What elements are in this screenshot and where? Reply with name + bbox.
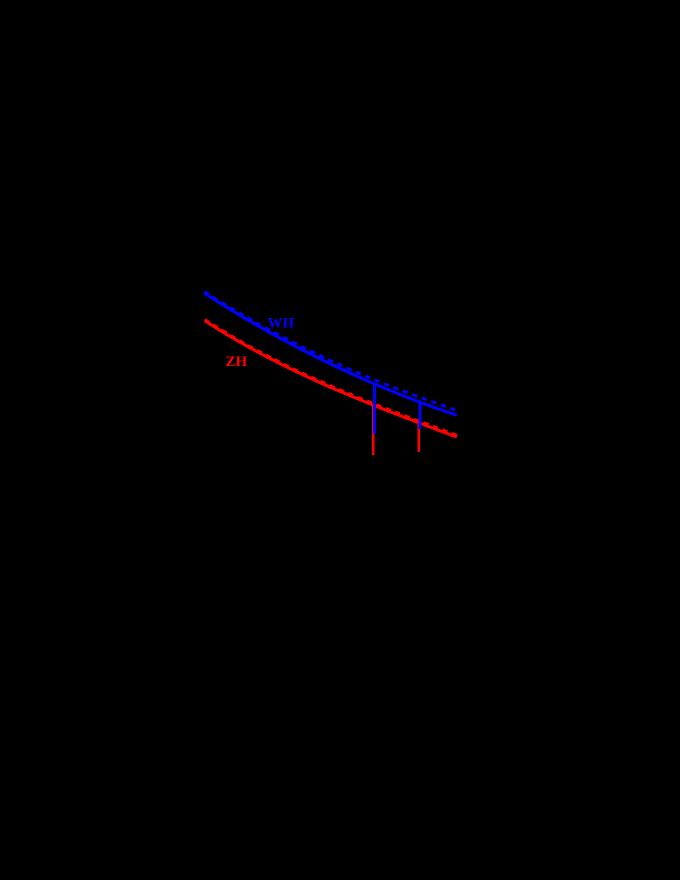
ZH solid curve (red) <box>205 321 457 437</box>
svg-text:ZH: ZH <box>226 354 248 370</box>
ZH spike 1 (red vertical dip) <box>372 404 374 456</box>
WH spike 2 (blue vertical dip) <box>418 402 421 429</box>
WH solid curve (blue) <box>204 293 456 415</box>
ZH dashed curve (red) <box>205 320 458 436</box>
svg-text:WH: WH <box>268 316 295 332</box>
WH spike 1 (blue vertical dip) <box>373 383 376 434</box>
WH dashed curve (blue) <box>204 292 458 411</box>
ZH spike 2 (red vertical dip) <box>418 422 420 453</box>
